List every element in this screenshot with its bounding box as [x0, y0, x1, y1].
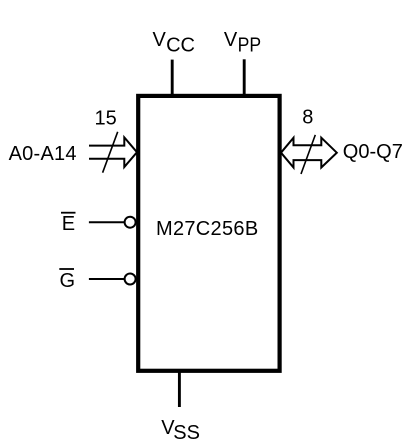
- bidirectional bus arrow Q0-Q7 (8 lines): [281, 138, 337, 168]
- label VPP: [224, 29, 261, 55]
- svg-text:SS: SS: [173, 422, 200, 444]
- input E (active low) label: [61, 213, 76, 236]
- overbar on E: [61, 212, 76, 214]
- pin VSS wire: [178, 371, 181, 407]
- inversion bubble G: [125, 274, 136, 285]
- IC body U1 M27C256B: [138, 96, 279, 371]
- bus width slash (15): [103, 132, 118, 173]
- svg-text:Q0-Q7: Q0-Q7: [343, 141, 403, 163]
- pin VPP wire: [243, 59, 246, 96]
- wire E: [89, 221, 124, 223]
- wire G: [89, 278, 124, 280]
- svg-text:PP: PP: [238, 33, 261, 55]
- svg-text:A0-A14: A0-A14: [9, 143, 77, 165]
- svg-text:8: 8: [302, 107, 313, 129]
- inversion bubble E: [125, 217, 136, 228]
- svg-text:V: V: [153, 29, 167, 51]
- pin VCC wire: [171, 60, 174, 96]
- svg-text:15: 15: [95, 107, 117, 129]
- overbar on G: [59, 268, 74, 270]
- label VSS: [161, 417, 200, 444]
- svg-text:G: G: [60, 270, 76, 292]
- bus arrow A0-A14 (input, 15 lines): [89, 137, 137, 167]
- bus width slash (8): [301, 135, 315, 174]
- svg-text:M27C256B: M27C256B: [156, 218, 258, 240]
- svg-text:V: V: [224, 29, 238, 51]
- input G (active low) label: [59, 269, 75, 292]
- label VCC: [153, 29, 195, 56]
- svg-text:E: E: [62, 213, 75, 235]
- svg-text:CC: CC: [166, 34, 195, 56]
